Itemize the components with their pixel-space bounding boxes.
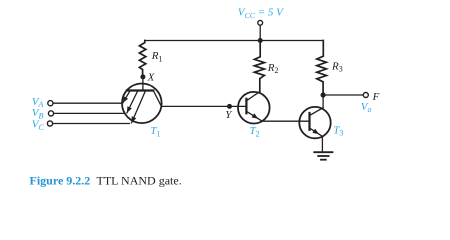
node T3 collector junction <box>321 92 326 97</box>
VCC supply terminal <box>258 20 263 25</box>
ground <box>314 152 332 160</box>
node VCC junction <box>258 38 263 43</box>
svg-text:F: F <box>372 91 380 103</box>
wire T2 emitter to T3 base <box>262 120 309 122</box>
wire X to T1 base <box>142 79 144 90</box>
wire T3 emitter to ground <box>321 136 323 152</box>
transistor T1 <box>122 84 162 124</box>
output terminal F <box>363 93 368 98</box>
svg-text:TTL NAND gate.: TTL NAND gate. <box>97 173 182 187</box>
wire T1 collector to T2 base <box>161 105 246 107</box>
wire VCC rail <box>145 40 323 42</box>
input terminal VA <box>48 101 53 106</box>
node Y <box>227 104 232 109</box>
input terminal VC <box>47 121 52 126</box>
wire VC to T1 emitter <box>53 123 130 125</box>
wire VCC terminal to rail <box>259 25 261 40</box>
resistor R3 <box>317 41 327 93</box>
resistor R2 <box>254 43 264 92</box>
svg-text:X: X <box>147 72 156 84</box>
transistor T2 <box>238 92 270 124</box>
wire collector junction down to T3 <box>322 95 324 108</box>
wire VB to T1 emitter <box>54 112 125 114</box>
resistor R1 <box>139 41 145 75</box>
svg-text:Figure 9.2.2: Figure 9.2.2 <box>30 173 91 187</box>
input terminal VB <box>48 111 53 116</box>
node X <box>140 74 145 79</box>
wire VA to T1 emitter <box>53 102 122 104</box>
transistor T3 <box>299 107 330 138</box>
wire junction to output F <box>323 94 363 96</box>
